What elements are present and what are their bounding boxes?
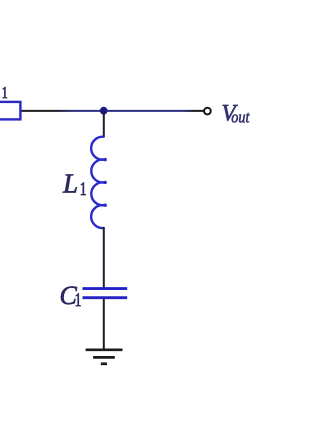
inductor L1 coil <box>91 137 104 228</box>
svg-text:1: 1 <box>75 289 82 311</box>
svg-text:out: out <box>231 109 250 127</box>
svg-text:1: 1 <box>80 178 87 200</box>
node: junction of wire and L1 <box>100 107 108 115</box>
capacitor C1 bottom plate <box>83 296 128 299</box>
wire: capacitor to ground <box>103 299 105 350</box>
svg-text:1: 1 <box>2 84 8 102</box>
wire: inductor to capacitor <box>103 227 105 288</box>
wire: junction down to inductor <box>103 110 105 138</box>
capacitor C1 top plate <box>83 287 128 290</box>
terminal Vout (open circle) <box>204 108 211 115</box>
wire: resistor R1 output to terminal <box>20 110 204 112</box>
resistor R1 (box, cut off at left edge) <box>0 102 20 120</box>
svg-text:L: L <box>62 169 78 199</box>
inductor cusp loops <box>104 158 107 161</box>
ground <box>86 348 123 351</box>
